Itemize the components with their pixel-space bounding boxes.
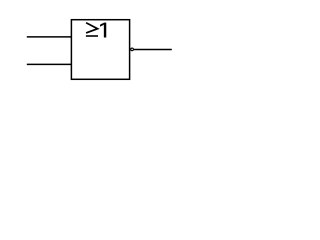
- wire input A: [27, 36, 72, 38]
- inversion bubble: [131, 48, 134, 51]
- wire output: [134, 49, 172, 51]
- gate body rectangle: [71, 20, 129, 80]
- label ≥1 : glyph ≥ chevron: [86, 23, 98, 33]
- label ≥1 : glyph 1 flag: [100, 23, 104, 27]
- wire input B: [27, 63, 72, 65]
- label ≥1 : glyph 1 stem: [104, 23, 106, 38]
- label ≥1 : glyph ≥ bar: [86, 35, 98, 37]
